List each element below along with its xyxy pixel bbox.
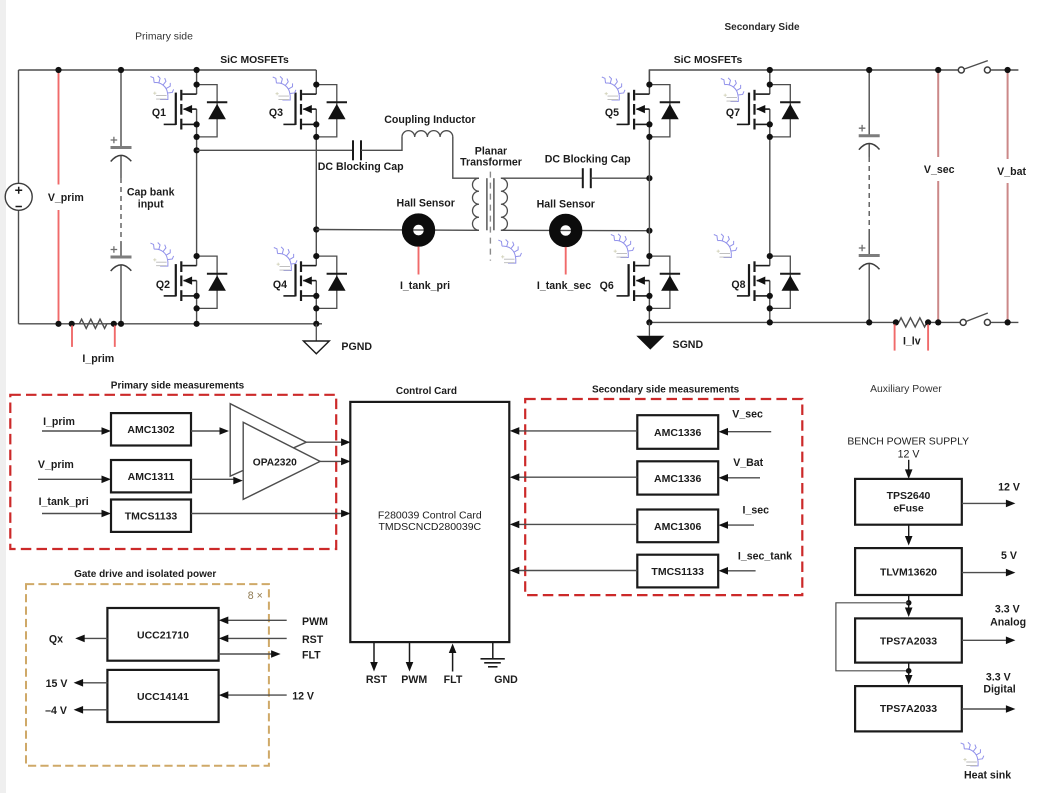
measurement ticks I_lv <box>894 324 896 350</box>
wire cap secondary to leg3 <box>591 177 650 179</box>
measurement line V_bat <box>1007 70 1009 322</box>
hall sensor primary <box>408 219 430 241</box>
svg-text:I_sec_tank: I_sec_tank <box>738 550 792 562</box>
block AMC1302 <box>111 413 191 445</box>
label V_prim <box>44 185 88 211</box>
wire V_Bat input arrow <box>728 477 761 479</box>
switch bottom <box>960 319 966 325</box>
transistor Q2 <box>156 253 227 312</box>
pin PWM <box>409 642 411 663</box>
measurement line V_prim <box>58 70 60 324</box>
svg-text:Heat sink: Heat sink <box>964 769 1011 781</box>
capacitor cap bank bottom <box>111 246 132 271</box>
pin RST <box>373 642 375 663</box>
svg-text:eFuse: eFuse <box>893 502 924 514</box>
transistor Q1 <box>152 82 227 140</box>
svg-text:Cap bank: Cap bank <box>127 186 175 198</box>
svg-text:5 V: 5 V <box>1001 550 1017 562</box>
heat sink Q8 <box>714 234 737 258</box>
svg-text:15 V: 15 V <box>46 678 68 690</box>
wire -4V output arrow <box>83 709 108 711</box>
svg-text:Digital: Digital <box>983 683 1015 695</box>
svg-text:Secondary Side: Secondary Side <box>724 22 799 33</box>
svg-text:AMC1336: AMC1336 <box>654 473 701 485</box>
wire V_prim input arrow <box>38 478 102 480</box>
svg-text:V_prim: V_prim <box>38 459 74 471</box>
svg-text:RST: RST <box>366 674 388 686</box>
svg-text:Q4: Q4 <box>273 279 287 291</box>
svg-text:I_sec: I_sec <box>743 505 770 517</box>
wire I_sec input arrow <box>728 524 755 526</box>
svg-text:RST: RST <box>302 634 324 646</box>
wire bypass line <box>836 603 909 671</box>
block TMCS1133 primary <box>111 500 191 532</box>
heat sink Q6 <box>611 234 634 258</box>
svg-text:I_prim: I_prim <box>82 353 114 365</box>
wire bench supply arrow <box>908 460 910 471</box>
svg-text:FLT: FLT <box>444 674 463 686</box>
wire Qx output arrow <box>85 637 108 639</box>
shunt resistor I_prim <box>72 323 80 325</box>
svg-text:TMCS1133: TMCS1133 <box>125 511 178 523</box>
svg-text:V_prim: V_prim <box>48 192 84 204</box>
wire AMC1311 to OPA2320 <box>191 478 234 480</box>
wire TMCS1133 to control card <box>191 513 342 515</box>
ground PGND <box>315 324 317 341</box>
svg-text:Coupling Inductor: Coupling Inductor <box>384 114 475 126</box>
block F280039 control card <box>350 402 509 642</box>
capacitor output top <box>859 125 880 150</box>
wire TPS2640 to TLVM13620 <box>908 525 910 537</box>
svg-text:Secondary side measurements: Secondary side measurements <box>592 384 740 395</box>
wire PWM input arrow <box>228 619 287 621</box>
wire I_sec_tank input arrow <box>728 570 756 572</box>
svg-text:Hall Sensor: Hall Sensor <box>397 198 455 210</box>
svg-text:TPS7A2033: TPS7A2033 <box>880 635 937 647</box>
svg-text:I_prim: I_prim <box>43 416 75 428</box>
svg-text:TLVM13620: TLVM13620 <box>880 566 937 578</box>
transistor Q5 <box>605 82 680 140</box>
svg-text:OPA2320: OPA2320 <box>253 457 297 468</box>
wire RST input arrow <box>228 637 287 639</box>
heat sink Q2 <box>150 242 173 266</box>
transformer secondary winding <box>501 178 508 230</box>
svg-text:Q3: Q3 <box>269 107 283 119</box>
wire secondary bottom rail <box>649 321 1018 323</box>
svg-text:Auxiliary Power: Auxiliary Power <box>870 384 942 395</box>
wire AMC1306 to control card <box>519 523 637 525</box>
shunt resistor I_lv <box>899 318 927 327</box>
heat sink Q3 <box>273 76 296 100</box>
ground SGND <box>648 322 650 335</box>
svg-text:Q5: Q5 <box>605 107 619 119</box>
wire transformer secondary top to DC blocking cap secondary <box>501 177 583 179</box>
wire TPS7A2033 first to second <box>908 663 910 676</box>
svg-text:GND: GND <box>494 674 518 686</box>
svg-text:V_sec: V_sec <box>924 164 955 176</box>
svg-text:I_tank_pri: I_tank_pri <box>400 280 450 292</box>
svg-text:UCC21710: UCC21710 <box>137 629 189 641</box>
wire secondary top rail <box>649 70 1018 85</box>
wire 12V input arrow <box>228 694 287 696</box>
wire primary bottom rail <box>19 323 323 325</box>
measurement line V_sec <box>937 70 939 322</box>
svg-text:TPS7A2033: TPS7A2033 <box>880 703 937 715</box>
block TMCS1133 secondary <box>637 555 718 588</box>
svg-text:F280039 Control Card: F280039 Control Card <box>378 510 482 522</box>
svg-text:12 V: 12 V <box>292 691 314 703</box>
transistor Q4 <box>273 253 347 312</box>
wire AMC1336 first to control card <box>519 430 637 432</box>
wire cap to coupling inductor <box>361 137 402 150</box>
svg-text:Q1: Q1 <box>152 107 166 119</box>
svg-text:Q6: Q6 <box>600 280 614 292</box>
svg-text:Primary side measurements: Primary side measurements <box>111 380 245 391</box>
svg-text:Q8: Q8 <box>731 279 745 291</box>
svg-text:12 V: 12 V <box>998 481 1020 493</box>
wire leg1 midpoint to DC blocking cap <box>197 149 353 151</box>
transistor Q7 <box>726 82 801 140</box>
wire output cap bank branch <box>868 70 870 322</box>
heat sink Q5 <box>602 76 625 100</box>
svg-text:PWM: PWM <box>302 616 328 628</box>
svg-text:I_lv: I_lv <box>903 335 921 347</box>
svg-text:AMC1302: AMC1302 <box>127 424 174 436</box>
svg-text:SiC MOSFETs: SiC MOSFETs <box>674 55 743 66</box>
svg-text:TMDSCNCD280039C: TMDSCNCD280039C <box>378 521 481 533</box>
wire leg3 vertical <box>648 70 650 322</box>
svg-text:I_tank_sec: I_tank_sec <box>537 280 591 292</box>
block UCC14141 <box>107 670 218 722</box>
heat sink Q7 <box>721 78 744 102</box>
svg-text:input: input <box>138 198 164 210</box>
wire 3.3V analog output arrow <box>962 639 1007 641</box>
svg-text:Qx: Qx <box>49 634 63 646</box>
wire inductor to transformer primary <box>453 137 479 178</box>
pin FLT <box>452 652 454 672</box>
svg-text:PWM: PWM <box>401 674 427 686</box>
svg-text:AMC1306: AMC1306 <box>654 521 701 533</box>
svg-text:AMC1311: AMC1311 <box>128 471 175 483</box>
block AMC1306 <box>637 510 718 543</box>
left page margin strip <box>0 0 6 793</box>
block UCC21710 <box>107 608 218 661</box>
wire TLVM13620 to TPS7A2033 first <box>908 595 910 609</box>
inductor Coupling Inductor <box>402 131 453 137</box>
svg-text:Gate drive and isolated power: Gate drive and isolated power <box>74 569 216 580</box>
wire FLT output arrow <box>219 653 272 655</box>
svg-text:Q2: Q2 <box>156 279 170 291</box>
secondary measurements dashed border <box>525 399 802 595</box>
svg-text:Hall Sensor: Hall Sensor <box>537 198 595 210</box>
wire 3.3V digital output arrow <box>962 708 1007 710</box>
svg-text:I_tank_pri: I_tank_pri <box>39 496 89 508</box>
hall sensor secondary <box>555 220 577 242</box>
block TLVM13620 <box>855 548 962 595</box>
measurement line I_tank_sec <box>565 247 567 275</box>
wire 12V output arrow aux <box>962 502 1007 504</box>
svg-text:V_Bat: V_Bat <box>733 457 763 469</box>
gate drive dashed border <box>26 584 269 766</box>
svg-text:Q7: Q7 <box>726 107 740 119</box>
wire AMC1302 to OPA2320 <box>191 430 220 432</box>
wire transformer secondary bottom to leg3 <box>501 229 650 231</box>
block TPS2640 eFuse <box>855 479 962 525</box>
primary measurements dashed border <box>10 395 336 549</box>
transistor Q3 <box>269 82 347 140</box>
svg-text:–4 V: –4 V <box>45 705 67 717</box>
heat sink Q4 <box>274 247 297 271</box>
wire V_sec input arrow <box>728 431 772 433</box>
transformer core <box>486 178 488 230</box>
svg-text:DC Blocking Cap: DC Blocking Cap <box>545 154 631 166</box>
svg-text:AMC1336: AMC1336 <box>654 427 701 439</box>
label V_sec <box>918 157 960 181</box>
wire leg4 vertical <box>769 70 771 322</box>
svg-text:SGND: SGND <box>673 339 704 351</box>
block TPS7A2033 second <box>855 686 962 731</box>
svg-text:FLT: FLT <box>302 649 321 661</box>
wire TMCS1133 secondary to control card <box>519 570 637 572</box>
wire leg1 vertical <box>196 70 198 324</box>
wire I_prim input arrow <box>42 430 102 432</box>
svg-text:Transformer: Transformer <box>460 157 522 169</box>
svg-text:PGND: PGND <box>341 341 372 353</box>
wire I_tank_pri input arrow <box>42 513 102 515</box>
capacitor cap bank top <box>111 137 132 162</box>
svg-text:TPS2640: TPS2640 <box>887 490 931 502</box>
capacitor output bottom <box>859 245 880 270</box>
svg-text:3.3 V: 3.3 V <box>995 604 1020 616</box>
measurement ticks I_prim <box>71 326 73 347</box>
svg-text:V_bat: V_bat <box>997 166 1026 178</box>
transistor Q6 <box>600 253 680 312</box>
wire AMC1336 second to control card <box>519 476 637 478</box>
svg-text:Planar: Planar <box>475 145 507 157</box>
transformer primary winding <box>472 178 479 230</box>
wire transformer primary bottom to leg2 <box>316 229 479 232</box>
svg-text:UCC14141: UCC14141 <box>137 691 189 703</box>
wire OPA2320 output 2 <box>320 460 341 462</box>
svg-text:DC Blocking Cap: DC Blocking Cap <box>318 161 404 173</box>
capacitor DC Blocking Cap primary <box>353 140 361 160</box>
svg-text:8 ×: 8 × <box>248 590 263 602</box>
transformer center dashed line <box>489 172 491 261</box>
wire OPA2320 output 1 <box>306 441 341 443</box>
wire left source branch <box>18 70 20 324</box>
svg-text:V_sec: V_sec <box>732 409 763 421</box>
switch top <box>958 67 964 73</box>
wire 5V output arrow <box>962 572 1007 574</box>
svg-text:12 V: 12 V <box>898 448 921 460</box>
wire 15V output arrow <box>83 682 108 684</box>
svg-text:Analog: Analog <box>990 617 1026 629</box>
svg-text:Control Card: Control Card <box>396 386 457 397</box>
measurement line I_tank_pri <box>418 247 420 275</box>
block AMC1336 second <box>637 461 718 494</box>
svg-text:TMCS1133: TMCS1133 <box>651 566 704 578</box>
voltage source V_prim <box>5 183 32 210</box>
heat sink bottom right <box>961 742 984 766</box>
block TPS7A2033 first <box>855 618 962 662</box>
transistor Q8 <box>731 253 800 312</box>
op-amp OPA2320 <box>230 404 306 477</box>
heat sink Q1 <box>150 76 173 100</box>
wire cap bank branch <box>120 70 122 324</box>
svg-text:SiC MOSFETs: SiC MOSFETs <box>220 55 289 66</box>
block AMC1336 first <box>637 415 718 449</box>
heat sink transformer <box>498 239 521 263</box>
wire leg2 vertical <box>315 70 317 324</box>
wire primary top rail <box>19 69 317 71</box>
ground GND pin <box>492 642 494 658</box>
label V_bat <box>990 159 1032 183</box>
svg-text:Primary side: Primary side <box>135 31 193 42</box>
capacitor DC Blocking Cap secondary <box>583 168 591 188</box>
svg-text:3.3 V: 3.3 V <box>986 671 1011 683</box>
block AMC1311 <box>111 460 191 492</box>
svg-text:BENCH POWER SUPPLY: BENCH POWER SUPPLY <box>847 436 969 447</box>
